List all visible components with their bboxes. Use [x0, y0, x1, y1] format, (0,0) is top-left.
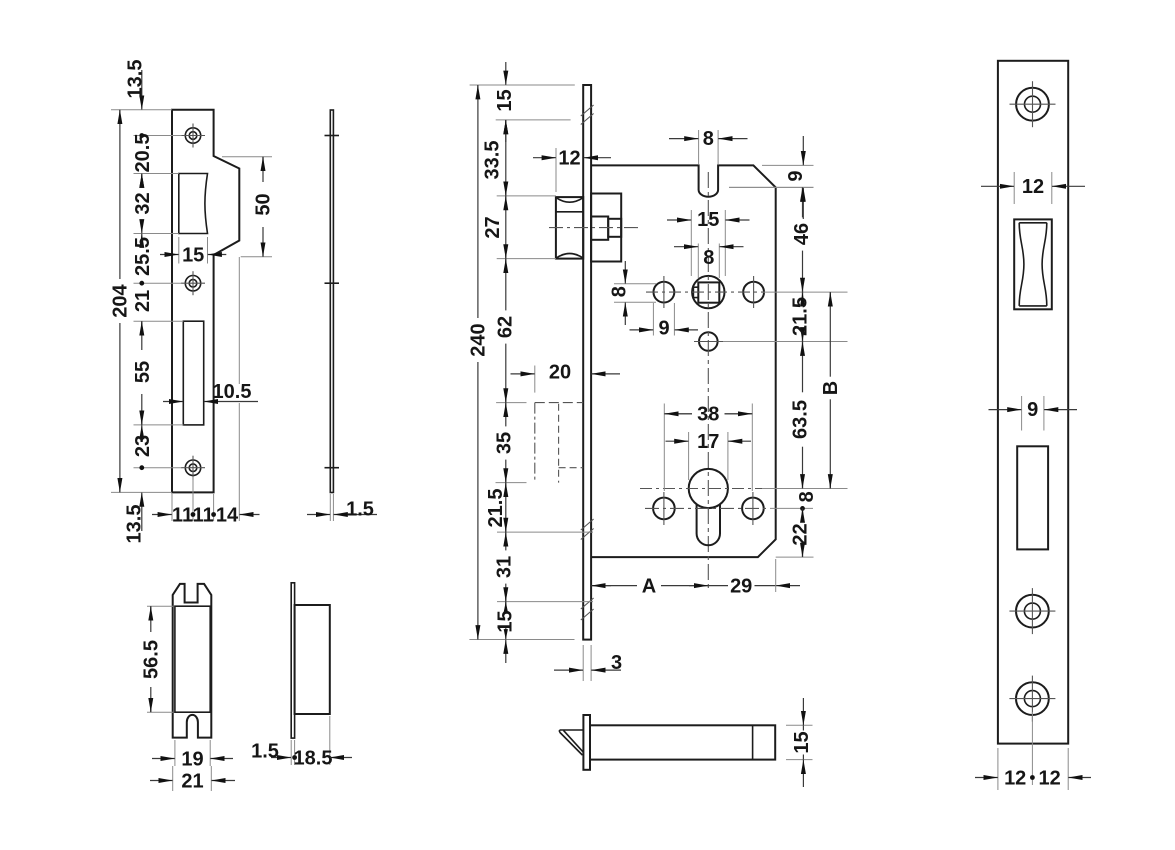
- lock case faceplate: [583, 85, 591, 640]
- svg-text:19: 19: [181, 749, 203, 771]
- svg-text:55: 55: [132, 361, 154, 383]
- faceplate cylinder window: [1017, 446, 1048, 549]
- svg-text:15: 15: [791, 731, 813, 753]
- dimension 9 (left hole horizontal): [630, 303, 699, 340]
- svg-text:20.5: 20.5: [132, 134, 154, 173]
- euro cylinder hole: [689, 469, 728, 545]
- dimension 13.5 top: [125, 60, 147, 110]
- svg-text:21.5: 21.5: [789, 297, 811, 336]
- case left extension lines: [469, 85, 593, 640]
- dimension 1.5 (strike side): [307, 494, 377, 521]
- dimension 12 (latch depth): [533, 147, 611, 192]
- dimension 15 (case top): [494, 62, 516, 142]
- strike extension lines: [111, 110, 183, 493]
- latch centerline: [549, 227, 641, 229]
- dimension B: [820, 292, 842, 488]
- latch bolt head: [556, 197, 583, 259]
- svg-text:15: 15: [495, 610, 517, 632]
- dimension 8 (left hole vertical): [609, 261, 656, 325]
- hub hole left: [654, 276, 675, 308]
- dimension A: [591, 576, 708, 598]
- strike chain dots: [139, 133, 144, 470]
- faceplate screw hole 1: [1010, 81, 1056, 127]
- svg-text:46: 46: [791, 223, 813, 245]
- dimension 21.5: [485, 483, 507, 532]
- svg-text:33.5: 33.5: [482, 141, 504, 180]
- dimension 19: [152, 740, 233, 771]
- dimension 240: [468, 85, 490, 640]
- faceplate screw hole 2: [1009, 588, 1055, 634]
- dimension 62: [494, 259, 516, 403]
- strike screw hole 1: [181, 124, 205, 148]
- hub hole right: [743, 276, 764, 308]
- svg-text:22: 22: [789, 523, 811, 545]
- dimension 63.5: [789, 342, 811, 489]
- svg-text:15: 15: [697, 209, 719, 231]
- svg-text:21: 21: [181, 771, 203, 793]
- dimension 8 (follower square): [674, 244, 744, 279]
- svg-text:204: 204: [110, 283, 132, 317]
- svg-text:12: 12: [1004, 768, 1026, 790]
- dimension 9 (faceplate): [989, 396, 1078, 431]
- dimension 55: [132, 321, 154, 425]
- strike plate latch opening: [179, 174, 208, 234]
- strike plate outline: [172, 110, 239, 493]
- cylinder flank hole left: [653, 492, 675, 525]
- latch bolt body: [591, 194, 621, 262]
- dimension 11-11-14: [152, 257, 260, 527]
- faceplate latch window: [1014, 219, 1052, 309]
- hidden slot dashed outline: [535, 403, 583, 483]
- svg-text:35: 35: [494, 432, 516, 454]
- svg-text:11: 11: [172, 505, 193, 527]
- flank holes centerline: [645, 507, 770, 509]
- strike plate side view: [325, 110, 340, 493]
- dimension 17: [666, 431, 752, 480]
- dimension 13.5 bottom: [124, 493, 146, 544]
- svg-text:12: 12: [1022, 176, 1044, 198]
- dust box side view faceplate: [291, 583, 294, 738]
- strike plate deadbolt opening: [183, 321, 203, 425]
- svg-text:63.5: 63.5: [789, 400, 811, 439]
- dimension 12 (faceplate latch): [981, 172, 1085, 204]
- svg-text:10.5: 10.5: [213, 381, 252, 403]
- dust box side view body: [295, 605, 330, 714]
- svg-text:29: 29: [730, 576, 752, 598]
- latch bolt bevel tip: [560, 730, 584, 755]
- dimension 9 (top chamfer): [729, 136, 814, 219]
- dimension 21.5 (right): [789, 292, 811, 341]
- case right extension lines: [729, 187, 848, 557]
- dimension 204: [110, 110, 132, 493]
- lock case body outline: [591, 165, 776, 557]
- svg-text:1.5: 1.5: [346, 498, 374, 520]
- dimension 15 (case bottom): [495, 602, 517, 663]
- latch spring box: [591, 217, 608, 240]
- dimension 29: [708, 559, 800, 598]
- svg-text:21.5: 21.5: [485, 489, 507, 528]
- top slot dimension 8: [669, 128, 748, 164]
- svg-text:56.5: 56.5: [140, 640, 162, 679]
- svg-text:17: 17: [697, 431, 719, 453]
- dimension 38: [664, 403, 752, 491]
- cylinder centerline horizontal: [640, 488, 762, 490]
- cylinder flank hole right: [742, 492, 764, 525]
- lower hole centerline: [694, 341, 723, 343]
- svg-text:B: B: [820, 381, 842, 395]
- strike screw hole 2: [181, 271, 205, 295]
- dust box outline: [173, 584, 212, 738]
- svg-text:25.5: 25.5: [132, 237, 154, 276]
- svg-text:240: 240: [468, 323, 490, 356]
- latch tongue: [608, 219, 621, 237]
- dust box inner body: [175, 606, 210, 712]
- svg-text:12: 12: [1038, 768, 1060, 790]
- svg-text:8: 8: [796, 491, 818, 502]
- dimension 15 (strike): [160, 237, 226, 267]
- svg-text:1.5: 1.5: [251, 741, 279, 763]
- dimension 20: [511, 361, 621, 392]
- faceplate screw hole 3: [1009, 676, 1055, 722]
- svg-text:20: 20: [549, 361, 571, 383]
- dimension 32: [132, 174, 154, 234]
- svg-text:38: 38: [697, 403, 719, 425]
- dimension 1.5 / 18.5 (dust box side): [251, 716, 352, 770]
- dimension 56.5: [140, 606, 173, 712]
- vertical centerline: [707, 172, 709, 591]
- right faceplate outline: [998, 61, 1068, 744]
- dimension 27: [482, 196, 506, 259]
- svg-text:11: 11: [193, 505, 214, 527]
- svg-text:18.5: 18.5: [294, 748, 333, 770]
- svg-text:A: A: [642, 576, 656, 598]
- dimension 23: [132, 425, 154, 457]
- faceplate break hatches: [581, 105, 594, 620]
- svg-text:13.5: 13.5: [125, 60, 147, 99]
- dimension 33.5: [482, 120, 506, 196]
- svg-text:12: 12: [558, 147, 580, 169]
- dimension 21: [132, 290, 154, 312]
- dimension 46: [791, 187, 813, 292]
- svg-text:8: 8: [703, 128, 714, 150]
- dimension 10.5: [163, 381, 258, 403]
- svg-text:9: 9: [1027, 399, 1038, 421]
- dimension 12-12 (faceplate bottom): [975, 712, 1091, 790]
- dimension 22: [789, 508, 811, 557]
- dimension 15 (follower): [667, 209, 750, 276]
- svg-text:3: 3: [611, 652, 622, 674]
- svg-text:8: 8: [609, 286, 631, 297]
- dimension 35: [494, 403, 516, 483]
- svg-text:21: 21: [132, 290, 154, 312]
- svg-text:23: 23: [132, 435, 154, 457]
- svg-text:13.5: 13.5: [124, 505, 146, 544]
- dimension 3 (faceplate): [554, 645, 622, 681]
- svg-text:62: 62: [494, 316, 516, 338]
- svg-text:14: 14: [216, 505, 239, 527]
- follower row centerline: [646, 291, 763, 293]
- dimension 25.5: [132, 234, 154, 276]
- svg-text:9: 9: [785, 170, 807, 181]
- svg-text:27: 27: [482, 216, 504, 238]
- svg-text:32: 32: [132, 192, 154, 214]
- latch bolt side view faceplate: [583, 715, 590, 770]
- svg-text:15: 15: [182, 245, 204, 267]
- dimension 20.5: [132, 134, 154, 188]
- svg-text:50: 50: [253, 193, 275, 215]
- lower hole: [699, 332, 718, 351]
- dimension 15 (latch side view): [786, 698, 813, 787]
- svg-text:31: 31: [494, 556, 516, 578]
- follower (square spindle hub): [692, 276, 724, 308]
- dimension 31: [494, 532, 516, 602]
- dimension 50: [222, 157, 275, 257]
- strike screw hole 3: [181, 456, 205, 480]
- svg-text:8: 8: [703, 247, 714, 269]
- svg-text:15: 15: [494, 89, 516, 111]
- latch bolt side view body: [590, 725, 775, 759]
- dimension 21: [150, 766, 235, 793]
- dimension 8 (right chain): [796, 491, 818, 511]
- svg-text:9: 9: [658, 318, 669, 340]
